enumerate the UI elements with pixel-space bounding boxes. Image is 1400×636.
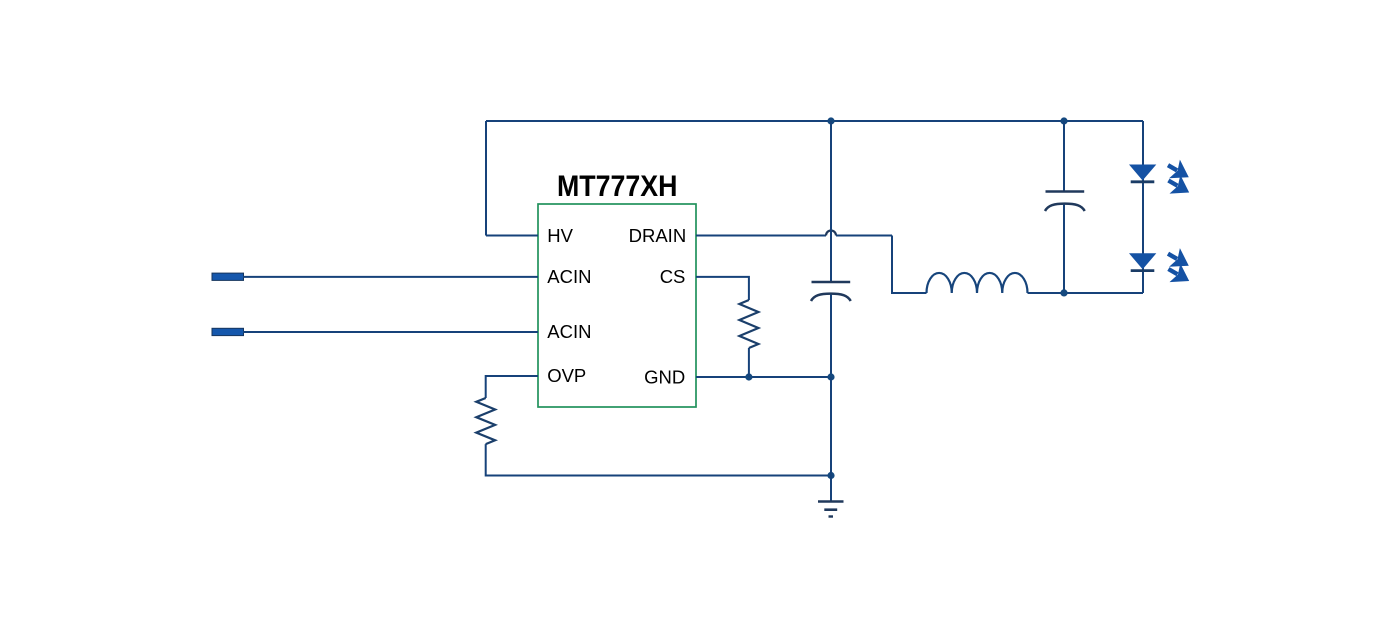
svg-text:MT777XH: MT777XH [557,170,678,203]
capacitor C2 flat plate [1046,190,1085,193]
wire inductor to right vertical [1028,292,1144,294]
wire ACIN2 [243,331,538,333]
wire DRAIN right segment [836,235,892,237]
LED D1 light arrows [1163,156,1195,202]
wire CS stub and down [696,277,749,300]
wire C2 bottom vertical [1063,205,1065,293]
svg-text:ACIN: ACIN [547,266,591,287]
wire below R-OVP to bottom rail [486,444,831,475]
IC U1 MT777XH body [538,204,696,407]
svg-text:OVP: OVP [547,365,586,386]
wire left vertical from top rail to HV [485,121,487,236]
terminal AC input 2 [212,328,244,335]
wire C2 top vertical [1063,121,1065,191]
ground symbol [818,502,844,517]
wire down from DRAIN to inductor level [892,236,927,294]
wire ground stem [830,476,832,502]
wire C1 bottom vertical to GND line [830,295,832,378]
wire C1 junction down to bottom rail [830,377,832,476]
capacitor C1 curved plate [811,294,851,301]
wire hop over vertical line [826,231,836,236]
wire top rail [486,120,1143,122]
node junction bottom rail / C2 [1060,289,1067,296]
node junction GND / C1 [827,373,834,380]
node junction top rail / C1 [827,117,834,124]
resistor R-OVP [476,398,495,444]
svg-text:GND: GND [644,367,685,388]
LED D2 light arrows [1163,244,1195,290]
wire HV stub [486,235,538,237]
LED D2 [1129,253,1156,270]
svg-text:CS: CS [660,266,686,287]
svg-text:ACIN: ACIN [547,321,591,342]
svg-text:HV: HV [547,225,573,246]
capacitor C2 curved plate [1045,204,1085,211]
svg-text:DRAIN: DRAIN [629,225,687,246]
wire right vertical LED branch [1142,121,1144,293]
wire below R-CS to GND line [748,348,750,377]
node junction top rail / C2 [1060,117,1067,124]
wire DRAIN left segment [696,235,826,237]
inductor L1 [927,273,1028,293]
LED D1 [1129,165,1156,182]
node junction bottom rail / ground stem [827,472,834,479]
terminal AC input 1 [212,273,244,280]
wire ACIN1 [243,276,538,278]
wire OVP stub and down [486,376,538,398]
capacitor C1 flat plate [812,281,851,284]
wire C1 top vertical [830,121,832,281]
wire GND line from IC [696,376,831,378]
node junction GND / R-CS [745,373,752,380]
resistor R-CS [739,300,758,348]
